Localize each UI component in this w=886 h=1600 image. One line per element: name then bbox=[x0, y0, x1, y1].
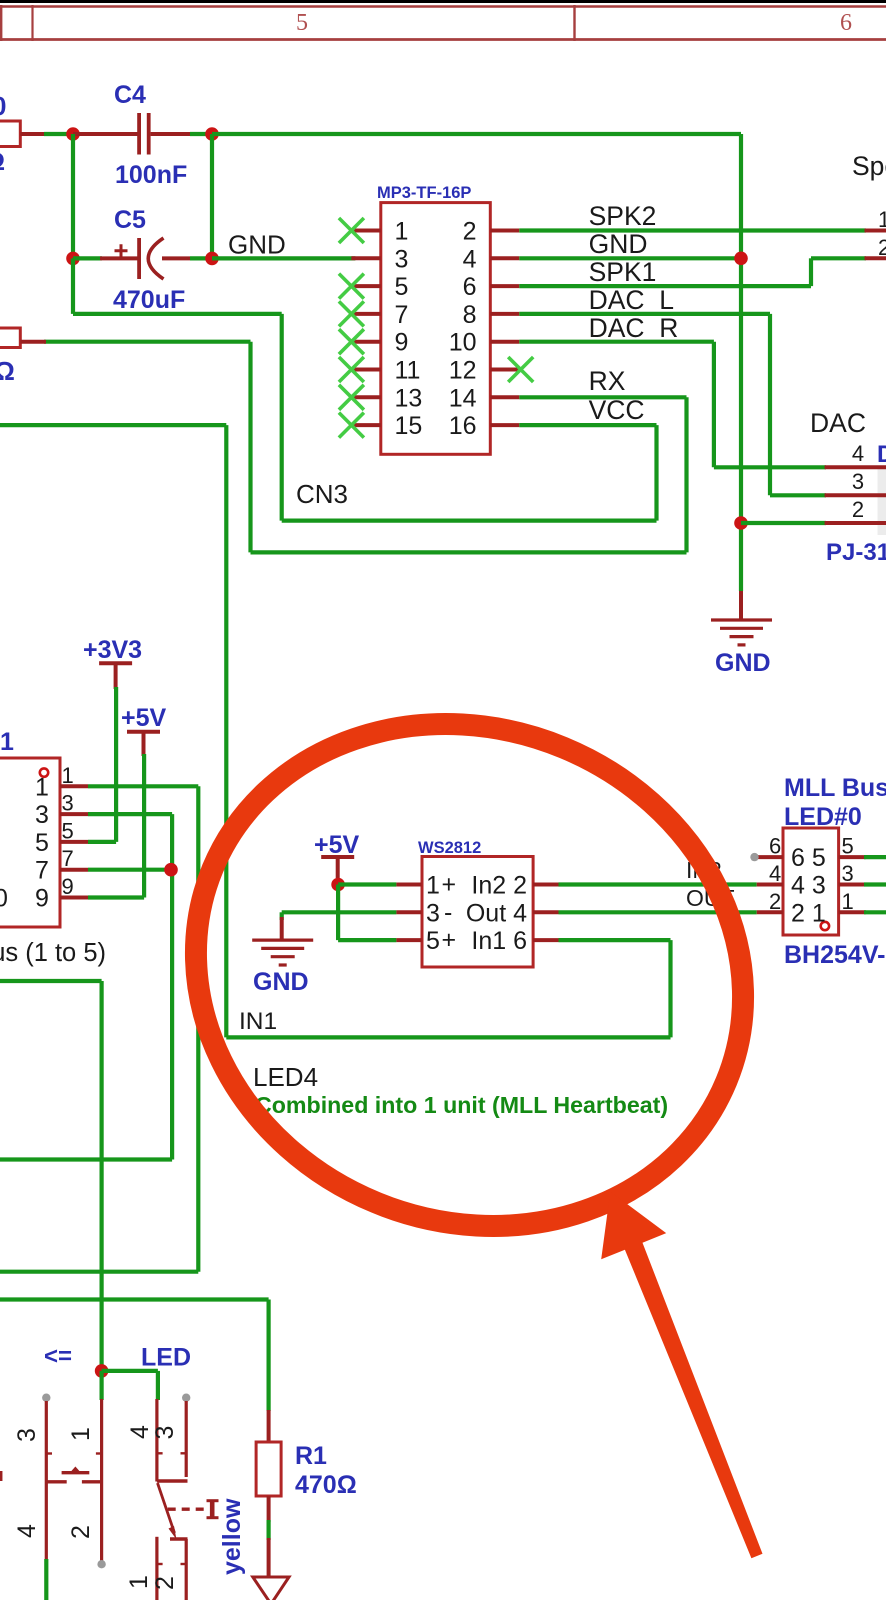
wire GND net to CN3 pin 3 bbox=[212, 256, 355, 260]
WS2812 pin 5 stub bbox=[396, 938, 421, 942]
svg-text:GND: GND bbox=[589, 229, 648, 259]
svg-text:yellow: yellow bbox=[218, 1498, 246, 1575]
svg-text:9: 9 bbox=[62, 874, 74, 899]
switch S2 lever bbox=[158, 1483, 175, 1533]
svg-text:13: 13 bbox=[395, 384, 423, 412]
svg-text:Ω: Ω bbox=[0, 356, 15, 386]
svg-text:BH254V-6: BH254V-6 bbox=[784, 941, 886, 969]
wire DAC_R (pin10 to PJ pin4) bbox=[519, 340, 714, 344]
capacitor C4 bbox=[73, 132, 138, 136]
svg-text:0: 0 bbox=[0, 91, 6, 121]
wire PJ pin2 bbox=[741, 521, 826, 525]
unused-pin X on CN3 pin 11 bbox=[339, 357, 364, 382]
PJ connector body sliver bbox=[878, 469, 886, 535]
annotation arrow bbox=[601, 1192, 762, 1559]
wire C5 left junction down to VCC row bbox=[71, 258, 75, 314]
svg-text:16: 16 bbox=[449, 412, 477, 440]
svg-text:+5V: +5V bbox=[121, 704, 167, 732]
svg-text:DAC: DAC bbox=[810, 408, 866, 438]
WS2812 pin 2 stub bbox=[533, 883, 559, 887]
wire LED#0 pin 5 to edge bbox=[864, 855, 886, 859]
resistor R1 bbox=[267, 1410, 271, 1442]
ground symbol at WS2812 bbox=[280, 917, 284, 940]
resistor R? body (cut at left edge) bbox=[0, 121, 20, 147]
svg-text:5: 5 bbox=[426, 927, 440, 955]
LED#0 pin 3 stub bbox=[839, 883, 866, 887]
wire WS2812 pin3 to ground bbox=[282, 910, 397, 914]
unused-pin X on CN3 pin 13 bbox=[339, 385, 364, 410]
wire LED#0 pin 3 to edge bbox=[864, 882, 886, 886]
svg-text:Ω: Ω bbox=[0, 148, 5, 176]
speaker pin 2 stub bbox=[865, 256, 886, 260]
node junction rail-PJ pin2 bbox=[734, 516, 748, 530]
svg-text:12: 12 bbox=[449, 357, 477, 385]
switch S2 pin 3 bbox=[182, 1394, 190, 1402]
svg-text:5: 5 bbox=[395, 273, 409, 301]
resistor pin stub bbox=[20, 340, 46, 344]
unconnected pin marker bbox=[750, 853, 758, 861]
IC pin 1 stub bbox=[60, 784, 88, 788]
svg-text:In2 2: In2 2 bbox=[471, 872, 527, 900]
svg-text:LED4: LED4 bbox=[253, 1062, 318, 1092]
svg-text:1: 1 bbox=[35, 773, 49, 801]
wire IC pin7 to junction bbox=[88, 868, 172, 872]
svg-text:3: 3 bbox=[35, 801, 49, 829]
PJ pin 3 stub bbox=[825, 493, 886, 497]
wire OUT (WS2812 pin4 to LED#0 pin2) bbox=[559, 910, 757, 914]
unused-pin X on CN3 pin 12 bbox=[508, 357, 533, 382]
wire IC pin5 to +3V3 bbox=[88, 840, 116, 844]
svg-text:9: 9 bbox=[35, 885, 49, 913]
svg-text:14: 14 bbox=[449, 384, 477, 412]
capacitor C5 (polarized) bbox=[73, 256, 102, 260]
svg-text:<=: <= bbox=[44, 1343, 72, 1370]
svg-text:2: 2 bbox=[852, 497, 864, 522]
svg-text:SPK2: SPK2 bbox=[589, 201, 657, 231]
svg-text:10: 10 bbox=[449, 329, 477, 357]
node junction at switch bbox=[95, 1364, 109, 1378]
svg-text:4 3: 4 3 bbox=[791, 872, 826, 900]
wire right vertical C4-C5 bbox=[210, 134, 214, 258]
CN3 pin 2 stub bbox=[490, 229, 519, 233]
switch S2 pin 4 line bbox=[155, 1399, 158, 1482]
svg-text:4: 4 bbox=[852, 441, 864, 466]
wire junction to switch2 pin4 bbox=[102, 1369, 158, 1373]
CN3 pin 11 stub bbox=[351, 368, 380, 372]
IC pin 7 stub bbox=[60, 868, 88, 872]
svg-text:9: 9 bbox=[395, 329, 409, 357]
node junction at C5 left bbox=[66, 252, 80, 266]
wire VCC (pin16 route) bbox=[519, 423, 656, 427]
svg-text:In1 6: In1 6 bbox=[471, 927, 527, 955]
svg-text:7: 7 bbox=[395, 301, 409, 329]
svg-text:Combined into 1 unit (MLL Hear: Combined into 1 unit (MLL Heartbeat) bbox=[255, 1092, 668, 1118]
svg-text:5: 5 bbox=[296, 10, 308, 36]
svg-text:3: 3 bbox=[395, 245, 409, 273]
svg-text:-: - bbox=[444, 898, 452, 926]
svg-text:1: 1 bbox=[67, 1427, 95, 1441]
IC pin 5 stub bbox=[60, 840, 88, 844]
unused-pin X on CN3 pin 5 bbox=[339, 274, 364, 299]
off-sheet symbol sliver bbox=[0, 1471, 2, 1481]
node junction +5V bbox=[331, 878, 345, 892]
svg-text:C4: C4 bbox=[114, 81, 146, 109]
CN3 pin 13 stub bbox=[351, 395, 380, 399]
wire SPK2 (pin2 to speaker pin1) bbox=[519, 228, 866, 232]
CN3 pin 14 stub bbox=[490, 395, 519, 399]
CN3 pin 3 stub bbox=[351, 256, 380, 260]
wire MLL bus stub down bbox=[0, 979, 102, 983]
svg-text:1: 1 bbox=[842, 889, 854, 914]
wire from left edge down to IN1 bbox=[0, 423, 226, 427]
ground symbol GND bbox=[739, 591, 743, 620]
svg-text:3: 3 bbox=[13, 1428, 41, 1442]
node junction at C4 right bbox=[205, 127, 219, 141]
PJ pin 4 stub bbox=[825, 465, 886, 469]
svg-text:1: 1 bbox=[125, 1575, 153, 1589]
svg-text:2: 2 bbox=[67, 1525, 95, 1539]
node junction rail-GND row bbox=[734, 251, 748, 265]
CN3 pin 6 stub bbox=[490, 284, 519, 288]
wire LED#0 pin 1 to edge bbox=[864, 910, 886, 914]
wire IC pin3 net bbox=[88, 812, 172, 816]
svg-text:LED: LED bbox=[141, 1344, 191, 1372]
svg-text:+3V3: +3V3 bbox=[83, 636, 142, 664]
WS2812 pin 1 stub bbox=[396, 883, 421, 887]
svg-text:Speaker: Speaker bbox=[852, 151, 886, 181]
svg-text:VCC: VCC bbox=[589, 395, 645, 425]
IC WS2812 body bbox=[422, 857, 533, 968]
svg-text:D: D bbox=[877, 441, 886, 468]
unused-pin X on CN3 pin 9 bbox=[339, 329, 364, 354]
svg-text:3: 3 bbox=[426, 899, 440, 927]
svg-text:MLL Bus (1 to 5): MLL Bus (1 to 5) bbox=[0, 939, 106, 967]
svg-text:2 1: 2 1 bbox=[791, 899, 826, 927]
wire +5V down to pin5 row bbox=[336, 885, 340, 941]
svg-text:8: 8 bbox=[463, 301, 477, 329]
IC pin 9 stub bbox=[60, 896, 88, 900]
svg-text:470Ω: 470Ω bbox=[295, 1471, 357, 1499]
CN3 pin 10 stub bbox=[490, 340, 519, 344]
speaker pin 1 stub bbox=[865, 229, 886, 233]
switch actuator bar bbox=[210, 1500, 215, 1519]
wire IC pin1 net bbox=[88, 784, 198, 788]
svg-text:5: 5 bbox=[35, 829, 49, 857]
svg-text:1: 1 bbox=[426, 872, 440, 900]
WS2812 pin 3 stub bbox=[396, 910, 421, 914]
svg-text:CN3: CN3 bbox=[296, 479, 348, 509]
pin stub of resistor R? bbox=[20, 132, 46, 136]
wire DAC_L (pin8 to PJ pin3) bbox=[519, 312, 770, 316]
IC pin-1 indicator ring bbox=[40, 768, 48, 776]
svg-text:1: 1 bbox=[395, 218, 409, 246]
svg-text:3: 3 bbox=[151, 1426, 179, 1440]
svg-text:1: 1 bbox=[0, 728, 14, 756]
svg-text:5: 5 bbox=[842, 834, 854, 859]
wire +5V to WS2812 pin1 bbox=[338, 882, 396, 886]
svg-text:C5: C5 bbox=[114, 206, 146, 234]
wire IN2 (WS2812 pin2 to LED#0 pin4) bbox=[559, 882, 757, 886]
wire vertical rail to GND symbol bbox=[739, 134, 743, 591]
svg-text:0: 0 bbox=[0, 885, 8, 913]
svg-text:GND: GND bbox=[253, 968, 309, 996]
svg-text:1: 1 bbox=[62, 763, 74, 788]
LED#0 pin-1 indicator ring bbox=[821, 922, 829, 930]
svg-text:Out 4: Out 4 bbox=[466, 899, 527, 927]
unused-pin X on CN3 pin 15 bbox=[339, 413, 364, 438]
unused-pin X on CN3 pin 7 bbox=[339, 301, 364, 326]
LED D? symbol (cut at bottom) bbox=[267, 1538, 271, 1577]
CN3 pin 16 stub bbox=[490, 423, 519, 427]
switch S? pole A pin 3 bbox=[42, 1394, 50, 1402]
svg-text:3: 3 bbox=[852, 469, 864, 494]
wire GND (pin4 to junction) bbox=[519, 256, 741, 260]
svg-text:7: 7 bbox=[35, 857, 49, 885]
LED#0 pin 6 stub bbox=[757, 855, 783, 859]
svg-text:RX: RX bbox=[589, 366, 626, 396]
svg-text:2: 2 bbox=[769, 889, 781, 914]
svg-text:6: 6 bbox=[769, 834, 781, 859]
LED#0 pin 4 stub bbox=[757, 883, 783, 887]
wire to WS2812 pin5 bbox=[338, 938, 396, 942]
svg-text:2: 2 bbox=[878, 235, 886, 260]
svg-text:SPK1: SPK1 bbox=[589, 257, 657, 287]
CN3 pin 15 stub bbox=[351, 423, 380, 427]
IC pin 3 stub bbox=[60, 812, 88, 816]
svg-text:R1: R1 bbox=[295, 1442, 327, 1470]
svg-text:3: 3 bbox=[842, 861, 854, 886]
wire +3V3 to IC pin 5 bbox=[114, 687, 118, 842]
wire IN1 (WS2812 pin6 loop) bbox=[559, 938, 671, 942]
svg-text:1: 1 bbox=[878, 207, 886, 232]
svg-text:IN1: IN1 bbox=[239, 1008, 277, 1035]
wire RX (pin14 route) bbox=[519, 395, 686, 399]
svg-text:5: 5 bbox=[62, 818, 74, 843]
switch S? pin 2 end bbox=[97, 1560, 105, 1568]
svg-text:+: + bbox=[442, 926, 457, 954]
connector CN3 MP3-TF-16P body bbox=[381, 203, 491, 455]
wire resistor to C4 bbox=[44, 132, 73, 136]
WS2812 pin 6 stub bbox=[533, 938, 559, 942]
wire switch pin4 down bbox=[44, 1559, 48, 1600]
svg-text:PJ-313: PJ-313 bbox=[826, 539, 886, 566]
switch S? pole A pin 1 line bbox=[100, 1399, 103, 1561]
svg-text:100nF: 100nF bbox=[115, 161, 187, 189]
svg-text:4: 4 bbox=[769, 861, 781, 886]
svg-text:2: 2 bbox=[463, 218, 477, 246]
WS2812 pin 4 stub bbox=[533, 910, 559, 914]
wire IC pin9 to +5V bbox=[88, 895, 144, 899]
wire C4 to junction bbox=[190, 132, 212, 136]
unused-pin X on CN3 pin 1 bbox=[339, 218, 364, 243]
svg-text:7: 7 bbox=[62, 846, 74, 871]
wire R1 to LED bbox=[267, 1520, 271, 1540]
svg-text:470uF: 470uF bbox=[113, 286, 185, 314]
CN3 pin 4 stub bbox=[490, 256, 519, 260]
svg-text:WS2812: WS2812 bbox=[418, 839, 481, 857]
svg-text:4: 4 bbox=[13, 1524, 41, 1538]
svg-text:6: 6 bbox=[840, 10, 852, 36]
annotation circle (MLL Heartbeat highlight) bbox=[119, 641, 821, 1308]
switch S? contact bbox=[46, 1480, 66, 1483]
svg-text:2: 2 bbox=[151, 1576, 179, 1590]
sheet frame top border bbox=[0, 0, 886, 3]
PJ pin 2 stub bbox=[825, 521, 886, 525]
IC header body (cut at left edge) bbox=[0, 758, 60, 927]
switch S2 contact bar bbox=[157, 1479, 188, 1482]
node junction at C5 right bbox=[190, 256, 212, 260]
svg-text:15: 15 bbox=[395, 412, 423, 440]
svg-text:4: 4 bbox=[463, 245, 477, 273]
svg-text:3: 3 bbox=[62, 791, 74, 816]
switch mechanical link (dashed) bbox=[168, 1507, 209, 1510]
wire +5V to IC pin 9 bbox=[142, 754, 146, 898]
CN3 pin 5 stub bbox=[351, 284, 380, 288]
CN3 pin 7 stub bbox=[351, 312, 380, 316]
wire net to switch junction bbox=[0, 1297, 269, 1301]
svg-text:+5V: +5V bbox=[314, 831, 360, 859]
CN3 pin 9 stub bbox=[351, 340, 380, 344]
svg-text:6: 6 bbox=[463, 273, 477, 301]
resistor body (cut at left edge) bbox=[0, 328, 20, 348]
LED#0 pin 5 stub bbox=[839, 855, 866, 859]
wire SPK1 (pin6 to speaker pin2) bbox=[519, 284, 811, 288]
svg-text:4: 4 bbox=[126, 1425, 154, 1439]
node junction at C4 left bbox=[66, 127, 80, 141]
svg-text:DAC_L: DAC_L bbox=[589, 285, 674, 315]
connector LED#0 body bbox=[783, 828, 839, 935]
svg-text:DAC_R: DAC_R bbox=[589, 313, 679, 343]
svg-text:6 5: 6 5 bbox=[791, 844, 826, 872]
node junction pin3/pin7 net bbox=[164, 863, 178, 877]
switch S2 lower contacts bbox=[170, 1537, 188, 1540]
svg-text:11: 11 bbox=[395, 357, 421, 385]
CN3 pin 8 stub bbox=[490, 312, 519, 316]
svg-text:GND: GND bbox=[715, 649, 771, 677]
svg-text:+: + bbox=[442, 871, 457, 899]
wire top rail to right bbox=[212, 132, 741, 136]
wire left vertical C4-C5 bbox=[71, 134, 75, 258]
CN3 pin 1 stub bbox=[351, 229, 380, 233]
svg-text:MLL Bus: MLL Bus bbox=[784, 774, 886, 802]
svg-text:MP3-TF-16P: MP3-TF-16P bbox=[377, 184, 471, 202]
CN3 pin 12 stub bbox=[490, 368, 519, 372]
wire junction to switch1 pin1 bbox=[99, 1371, 103, 1400]
svg-text:GND: GND bbox=[228, 230, 286, 260]
LED#0 pin 2 stub bbox=[757, 910, 783, 914]
LED#0 pin 1 stub bbox=[839, 910, 866, 914]
